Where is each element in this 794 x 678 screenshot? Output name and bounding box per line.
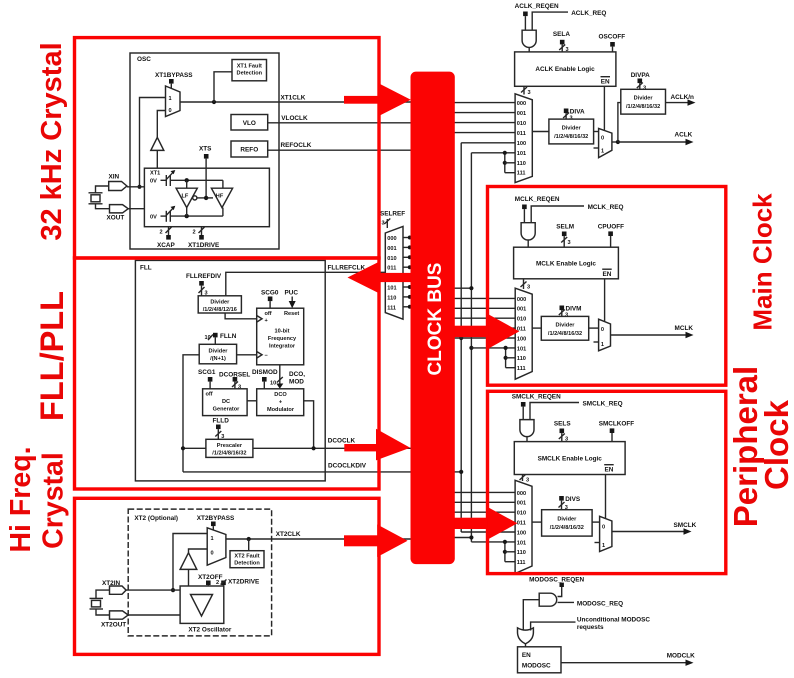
svg-text:0: 0 [169,108,172,114]
svg-text:MCLK Enable Logic: MCLK Enable Logic [536,261,596,268]
svg-text:EN: EN [603,271,612,278]
prescaler box [206,439,253,457]
svg-text:DCOCLK: DCOCLK [328,438,356,445]
svg-text:3: 3 [526,478,529,484]
red box 32 kHz Crystal [75,38,380,258]
wire OR to MODOSC [525,644,527,647]
wire bottom rail to HF apex [222,208,224,217]
select 3 into SMCLK mux [520,475,530,484]
svg-text:000: 000 [517,491,526,497]
svg-text:ACLK_REQ: ACLK_REQ [571,10,606,17]
red box Main Clock [488,187,726,386]
svg-text:101: 101 [517,540,526,546]
wire EN to mux select [605,475,607,519]
svg-text:DC: DC [222,399,230,405]
svg-text:SMCLK Enable Logic: SMCLK Enable Logic [538,456,603,463]
svg-text:011: 011 [387,266,396,272]
wire gate to logic [527,240,529,247]
wire AND to OR [523,600,539,630]
wire MCLK mux out to divider [532,327,541,329]
svg-text:001: 001 [387,246,396,252]
svg-text:Reset: Reset [284,311,299,317]
divider ACLK box [549,119,594,144]
svg-text:SCG1: SCG1 [198,369,216,376]
svg-text:FLLD: FLLD [213,418,230,425]
wire VLOCLK [268,115,411,123]
wire bypass path XT2IN to mux1 [173,534,207,591]
XT1DRIVE pin [188,227,220,249]
svg-text:0: 0 [601,327,604,333]
svg-text:EN: EN [522,652,531,659]
svg-text:MODCLK: MODCLK [667,653,695,660]
XT2OFF pin [198,574,223,586]
svg-text:/1/2/4/8/16/32: /1/2/4/8/16/32 [212,451,246,457]
svg-text:SMCLK: SMCLK [674,522,697,529]
FLL box [135,260,325,481]
svg-text:001: 001 [517,111,526,117]
divider FLLREFDIV box [198,296,241,313]
OR gate MODOSC [518,628,534,644]
wire SMCLK mux out to divider [532,521,542,523]
svg-text:LF: LF [182,194,189,200]
svg-text:10-bit: 10-bit [275,329,290,335]
node XIN junction [137,185,141,189]
svg-text:XIN: XIN [109,174,120,181]
svg-text:/1/2/4/8/16/32: /1/2/4/8/16/32 [550,525,584,531]
buffer triangle XT1 [151,111,166,169]
svg-text:Generator: Generator [213,407,241,413]
svg-text:0: 0 [601,136,604,142]
label DCO, MOD [289,371,305,386]
SELREF label [380,211,405,229]
svg-text:3: 3 [528,90,531,96]
ACLK_REQEN pin [515,3,559,30]
svg-text:FLLREFDIV: FLLREFDIV [186,273,222,280]
DC generator box [203,389,248,416]
svg-text:XT2 Fault: XT2 Fault [234,554,259,560]
MODOSC box [518,647,562,673]
divider ACLK/n box [621,89,666,114]
clock input triangle + [257,316,262,323]
red arrow XT2CLK to bus [344,525,408,558]
svg-text:HF: HF [216,194,224,200]
select 3 into MCLK mux [521,279,531,291]
FLLREFDIV pin [186,273,222,297]
svg-text:3: 3 [643,86,646,92]
MODOSC_REQEN pin [529,577,584,597]
wire XT2CLK [226,531,411,539]
mux ACLK out (2:1) [594,128,612,157]
svg-text:DCO,: DCO, [289,371,305,378]
DIVM pin [559,306,582,319]
svg-text:Unconditional MODOSC: Unconditional MODOSC [577,617,651,624]
capacitor bottom (variable) [161,206,223,222]
svg-text:XT2DRIVE: XT2DRIVE [228,579,260,586]
SMCLK mux 101/110/111 tie [503,540,515,562]
svg-text:EN: EN [601,79,610,86]
red arrow bus to MCLK mux [448,314,519,348]
svg-text:FLLN: FLLN [220,333,237,340]
mux SMCLK out (2:1) [595,516,612,551]
svg-text:XTS: XTS [199,146,212,153]
crystal XT2 [90,590,110,615]
wire feedback into divider2 [183,355,199,472]
LF inverter [176,188,197,207]
svg-text:XT2CLK: XT2CLK [276,531,301,538]
SELS pin [554,421,571,443]
XT1BYPASS pin [155,72,193,89]
XT2DRIVE pin [216,579,260,587]
wire divider to mux0 [589,327,599,329]
wire MCLK out [611,325,694,338]
red box Hi Freq Crystal [75,498,380,654]
red arrow bus to FLLREFCLK [348,262,414,294]
wire XT1CLK [180,95,411,103]
XT2IN pad [102,580,180,594]
MCLK mux 101/110/111 tie [504,346,516,368]
crystal XT1 [89,186,110,209]
wire divider1 to integrator [225,313,257,319]
svg-text:ACLK Enable Logic: ACLK Enable Logic [535,66,595,73]
svg-text:110: 110 [517,161,526,167]
label XT1 0V [150,171,160,185]
wire unconditional requests [531,617,651,632]
svg-text:SELM: SELM [556,224,574,231]
svg-text:110: 110 [517,550,526,556]
svg-text:1: 1 [601,149,604,155]
svg-text:1: 1 [211,536,214,542]
FLLN pin [205,333,237,345]
wire to fault detection [214,72,232,102]
svg-text:100: 100 [517,336,526,342]
wire DCOCLK [253,438,411,449]
SELREF input stubs [403,236,412,309]
svg-text:REFOCLK: REFOCLK [281,142,312,149]
select 3 into ACLK mux [521,86,531,96]
svg-text:Hi Freq.: Hi Freq. [5,446,37,552]
svg-text:0V: 0V [150,215,157,221]
XT2BYPASS pin [197,515,235,531]
svg-text:2: 2 [160,230,163,236]
node XT2IN junction [171,588,175,592]
svg-text:Main Clock: Main Clock [748,193,778,331]
wire ACLK mux out to divider [532,131,549,133]
XT1 inner oscillator box [144,168,269,227]
wire SMCLK out [612,522,697,535]
wire ACLK out [618,132,694,146]
svg-text:SMCLK_REQEN: SMCLK_REQEN [512,394,561,401]
svg-text:Detection: Detection [234,561,260,567]
svg-text:/1/2/4/8/16/32: /1/2/4/8/16/32 [548,331,582,337]
wire divider2 to integrator minus [237,352,262,359]
svg-text:DCO: DCO [274,392,287,398]
svg-text:/1/2/4/8/12/16: /1/2/4/8/12/16 [203,307,237,313]
node DCOCLK junction [312,446,316,450]
DCORSEL pin [219,372,250,391]
svg-text:MODOSC: MODOSC [522,663,551,670]
red arrow bus to SMCLK mux [448,507,517,540]
svg-text:Crystal: Crystal [38,452,70,549]
svg-text:SELA: SELA [553,31,570,38]
svg-text:SCG0: SCG0 [261,290,279,297]
node feedback junction [181,446,185,450]
svg-text:010: 010 [517,317,526,323]
svg-text:off: off [206,392,213,398]
vertical bus wire A (DCOCLKDIV) [452,143,463,532]
divider MCLK box [541,316,588,340]
buffer triangle XT2 [180,549,207,586]
svg-text:Divider: Divider [210,300,230,306]
svg-text:MCLK_REQ: MCLK_REQ [588,204,624,211]
svg-text:101: 101 [387,286,396,292]
svg-text:SELS: SELS [554,421,571,428]
svg-text:SELREF: SELREF [380,211,405,218]
XOUT pad [107,205,145,222]
svg-text:XT1 Fault: XT1 Fault [237,64,262,70]
svg-text:EN: EN [605,467,614,474]
MCLK enable logic box [514,247,619,279]
svg-text:111: 111 [517,560,526,566]
SMCLK enable logic box [514,442,625,475]
SELM pin [556,224,574,248]
SMCLK_REQEN pin [512,394,561,420]
svg-text:1: 1 [169,96,172,102]
svg-text:XT2 Oscillator: XT2 Oscillator [188,627,231,634]
svg-text:/1/2/4/8/16/32: /1/2/4/8/16/32 [626,104,660,110]
svg-text:VLO: VLO [243,120,256,127]
red box FLL/PLL [75,258,380,489]
AND gate MODOSC request [539,593,557,606]
HF inverter [211,188,232,207]
XT2 fault detection box [230,551,264,568]
wire divider to mux0 [592,521,600,523]
svg-text:ACLK/n: ACLK/n [671,94,695,101]
wire MODCLK out [561,653,695,666]
wire EN to mux select [604,279,606,322]
svg-text:111: 111 [517,171,526,177]
SELA pin [553,31,570,53]
XT2OUT pad [101,611,180,629]
svg-text:DIVPA: DIVPA [631,72,650,79]
divider SMCLK box [542,510,593,536]
OSC box [130,53,279,249]
wire ACLK/n out [666,94,696,106]
10-bit frequency integrator box [257,308,304,365]
wire REFOCLK [268,142,411,150]
svg-text:DIVA: DIVA [570,109,585,116]
mux XT1 bypass [166,86,181,117]
XT2 oscillator box [180,586,232,634]
svg-text:2: 2 [216,580,219,586]
svg-text:ACLK: ACLK [675,132,693,139]
svg-text:ACLK_REQEN: ACLK_REQEN [515,3,559,10]
DIVS pin [559,496,581,511]
svg-text:CLOCK BUS: CLOCK BUS [425,263,446,376]
svg-text:OSCOFF: OSCOFF [599,34,626,41]
svg-text:DISMOD: DISMOD [252,369,278,376]
svg-text:010: 010 [387,256,396,262]
svg-text:0: 0 [602,525,605,531]
svg-text:requests: requests [577,624,604,631]
AND gate SMCLK request [520,420,534,437]
svg-text:DIVM: DIVM [566,306,582,313]
SCG1 pin [198,369,216,389]
svg-text:REFO: REFO [240,147,258,154]
svg-text:OSC: OSC [137,56,151,63]
svg-text:100: 100 [517,141,526,147]
SMCLK mux input wires [452,492,515,542]
divider /(N+1) box [199,344,236,364]
vertical bus wire B (XT2CLK) [452,153,474,542]
AND gate MCLK request [521,223,535,240]
DCO + modulator box [257,389,304,416]
svg-text:Modulator: Modulator [267,407,295,413]
svg-text:Divider: Divider [556,323,576,329]
XTS pin [199,146,212,201]
svg-text:XT2 (Optional): XT2 (Optional) [134,515,178,522]
ACLK mux input wires [452,103,515,153]
svg-text:32 kHz Crystal: 32 kHz Crystal [36,42,68,240]
REFO box [231,141,268,157]
svg-text:XT1CLK: XT1CLK [281,95,306,102]
svg-text:FLL: FLL [140,265,152,272]
red arrow XT1CLK to bus [344,83,411,116]
svg-text:001: 001 [517,501,526,507]
node ACLK out junction [612,103,621,144]
svg-text:XT1DRIVE: XT1DRIVE [188,242,220,249]
svg-text:SMCLK_REQ: SMCLK_REQ [583,401,623,408]
svg-text:101: 101 [517,346,526,352]
svg-text:XCAP: XCAP [157,242,175,249]
svg-text:XT1: XT1 [150,171,160,177]
wire EN to mux select [603,86,605,130]
node bottom rail junction [185,208,189,219]
svg-text:FLLREFCLK: FLLREFCLK [328,265,366,272]
node XT2CLK junction [247,537,251,541]
PUC input arrow [285,290,299,309]
XCAP pin [157,227,175,249]
VLO box [231,115,268,131]
wire prescaler to feedback node [183,447,206,449]
wire DC gen to DCO [247,400,257,402]
integrator to DCO 10-bit bus [270,365,283,389]
wire FLLREFCLK into divider [226,265,385,296]
capacitor top (variable) [161,170,223,186]
XT2 dashed box [128,509,271,636]
node XT1CLK junction [212,100,216,104]
svg-text:000: 000 [517,101,526,107]
svg-text:SMCLKOFF: SMCLKOFF [599,421,635,428]
svg-text:110: 110 [387,295,396,301]
svg-text:111: 111 [517,366,526,372]
OSCOFF pin [599,34,626,52]
svg-text:Prescaler: Prescaler [217,443,243,449]
FLLD pin [213,418,230,441]
svg-text:DIVS: DIVS [565,496,581,503]
svg-text:010: 010 [517,511,526,517]
svg-text:Frequency: Frequency [268,336,297,342]
svg-text:MCLK_REQEN: MCLK_REQEN [515,196,560,203]
svg-text:Divider: Divider [557,517,577,523]
svg-text:3: 3 [238,385,241,391]
svg-text:XT2OUT: XT2OUT [101,622,126,629]
svg-text:2: 2 [193,230,196,236]
svg-text:101: 101 [517,151,526,157]
DIVPA pin [631,72,650,92]
node top rail junction [185,178,189,188]
svg-text:FLL/PLL: FLL/PLL [34,291,70,421]
svg-text:XOUT: XOUT [107,215,125,222]
svg-text:100: 100 [517,530,526,536]
MCLK mux input wires [452,298,515,348]
DISMOD pin [252,369,278,389]
wire ACLK_REQ [532,10,606,30]
svg-text:1: 1 [602,543,605,549]
wire SMCLK_REQ [530,401,623,420]
wire divider to mux0 [594,131,599,133]
CPUOFF pin [598,224,624,248]
svg-text:Clock: Clock [758,399,794,490]
red box Peripheral Clock [488,391,726,573]
SMCLKOFF pin [599,421,635,442]
svg-text:Integrator: Integrator [269,344,296,350]
svg-text:/1/2/4/8/16/32: /1/2/4/8/16/32 [554,134,588,140]
svg-text:001: 001 [517,307,526,313]
svg-text:VLOCLK: VLOCLK [281,115,308,122]
red CLOCK BUS bar [411,72,455,564]
svg-text:off: off [265,311,272,317]
mux SELREF [385,226,403,319]
svg-text:DCOCLKDIV: DCOCLKDIV [328,463,367,470]
svg-text:Divider: Divider [562,126,582,132]
svg-text:000: 000 [387,236,396,242]
svg-text:1: 1 [601,342,604,348]
svg-text:111: 111 [387,305,396,311]
mux ACLK (8:1) [515,94,532,183]
DIVA pin [563,109,585,122]
SCG0 pin [261,290,279,309]
wire mid line [197,197,213,199]
svg-text:000: 000 [517,297,526,303]
svg-text:MODOSC_REQ: MODOSC_REQ [577,600,623,607]
svg-text:MOD: MOD [289,379,304,386]
svg-text:XT2BYPASS: XT2BYPASS [197,515,235,522]
mux MCLK out (2:1) [594,319,611,351]
svg-text:010: 010 [517,121,526,127]
XIN pad [109,174,145,191]
wire MCLK_REQ [531,204,623,223]
svg-text:MODOSC_REQEN: MODOSC_REQEN [529,577,584,584]
svg-text:PUC: PUC [285,290,299,297]
red arrow DCOCLK to bus [344,429,410,461]
svg-text:Divider: Divider [209,349,229,355]
svg-text:0V: 0V [150,179,157,185]
svg-text:3: 3 [568,240,571,246]
svg-text:3: 3 [527,285,530,291]
ACLK mux 101/110/111 tie [503,151,515,173]
mux MCLK (8:1) [515,288,532,379]
wire gate to logic [526,437,528,442]
svg-text:MCLK: MCLK [675,325,694,332]
svg-text:Divider: Divider [634,96,654,102]
wire bypass path XIN to mux1 [140,98,166,187]
ACLK enable logic box [515,52,616,86]
wire top rail to HF [222,180,224,188]
wire MODOSC_REQ [558,600,624,607]
MCLK_REQEN pin [515,196,560,223]
svg-text:XT1BYPASS: XT1BYPASS [155,72,193,79]
mux XT2 bypass [207,528,226,565]
